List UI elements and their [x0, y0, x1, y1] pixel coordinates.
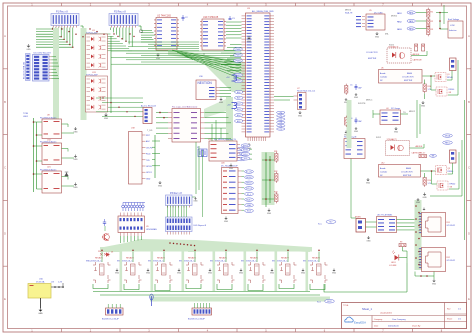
connector pins left of OLED — [356, 16, 365, 27]
svg-text:AC-In-L Bluetooth: AC-In-L Bluetooth — [141, 105, 156, 108]
mosfet Q2 RF540 channel A — [436, 87, 454, 96]
svg-text:17264A(CT): 17264A(CT) — [387, 138, 398, 141]
svg-text:P1: P1 — [280, 116, 282, 118]
gnd right of RELAY6 — [270, 269, 275, 275]
svg-text:E: E — [468, 297, 470, 301]
svg-text:GND: GND — [146, 178, 151, 180]
svg-text:U21: U21 — [47, 167, 52, 169]
svg-text:Your Company: Your Company — [392, 318, 407, 321]
svg-text:M1L: M1L — [385, 34, 389, 36]
svg-text:GND: GND — [73, 131, 78, 133]
net flag FAN3 oval — [397, 27, 415, 31]
svg-text:GND: GND — [239, 273, 244, 275]
svg-text:1.7k: 1.7k — [428, 183, 432, 185]
svg-text:CAP: CAP — [358, 87, 362, 90]
gnd right of RELAY7 — [301, 269, 306, 275]
gnd below U19 — [202, 54, 207, 61]
svg-text:Anode: Anode — [380, 72, 385, 75]
svg-text:B: B — [4, 100, 6, 104]
svg-text:BUZZ/DOC-0.36-8P: BUZZ/DOC-0.36-8P — [188, 319, 206, 321]
IC U2 74HC165 — [154, 14, 179, 50]
svg-text:GND: GND — [267, 213, 272, 215]
svg-text:D: D — [4, 231, 6, 235]
svg-text:ALL_MEGA_2560_SMD: ALL_MEGA_2560_SMD — [252, 10, 274, 13]
svg-text:SRD-05VDC-SL-C: SRD-05VDC-SL-C — [303, 260, 319, 262]
connector U14 LED Board x8 — [33, 52, 52, 81]
svg-text:GND: GND — [224, 221, 229, 223]
svg-text:TLP521-4GP: TLP521-4GP — [86, 75, 98, 77]
wire relay8 bottom run — [324, 263, 407, 292]
pale green bus right column — [347, 100, 352, 148]
gnd below R7 — [344, 98, 349, 104]
module U18 ESP — [129, 128, 154, 185]
IC U19 74HC165 — [200, 16, 226, 50]
resistor R14 1.7k channel B — [423, 176, 431, 187]
svg-text:PWM1: PWM1 — [235, 55, 240, 57]
gnd right of U18 bottom — [158, 181, 163, 187]
input block J4 Home relay IN — [344, 136, 365, 159]
svg-text:G8: G8 — [450, 187, 453, 189]
wire stub RELAY6 to bundle — [256, 249, 258, 262]
wires P3 to P4 verticals — [168, 206, 187, 218]
svg-text:GND: GND — [366, 182, 371, 184]
resistor R21 4.7k pull-up — [274, 151, 278, 163]
svg-text:R1: R1 — [431, 12, 435, 14]
svg-text:A: A — [468, 34, 470, 38]
gnd right of RELAY5 — [239, 269, 244, 275]
wire bundle center vertical to bottom — [196, 142, 203, 217]
pale green bus beside pullup resistors — [262, 152, 275, 205]
wires level shifter right pins to bus — [205, 112, 232, 138]
wire vertical channel A to channel B — [417, 100, 420, 138]
svg-text:U18: U18 — [131, 128, 136, 130]
driver U12 opto output block channel B — [379, 163, 421, 178]
svg-text:RELAY7: RELAY7 — [281, 257, 290, 260]
net flag ovals right of U17 — [241, 144, 250, 160]
mosfet Q4 RF540 channel B — [437, 181, 455, 190]
svg-text:EasyEDA: EasyEDA — [354, 320, 366, 324]
svg-text:7%: 7% — [403, 112, 406, 114]
svg-text:MISO2: MISO2 — [246, 183, 251, 185]
svg-text:ULN2003AN: ULN2003AN — [146, 228, 157, 231]
header J2 BUZZ/DOC 4P — [102, 304, 123, 321]
svg-text:Header Male 2.54_1x4: Header Male 2.54_1x4 — [297, 91, 315, 93]
labels MISO2 SDA left of OLED — [345, 10, 353, 15]
svg-text:SCK2TE: SCK2TE — [358, 103, 366, 105]
svg-text:CH_PD: CH_PD — [146, 147, 153, 149]
wires ULN outputs into bundle — [121, 236, 142, 243]
svg-text:R2: R2 — [431, 21, 435, 23]
svg-text:SRD-05VDC-SL-C: SRD-05VDC-SL-C — [117, 260, 133, 262]
label SCK2 channel A — [389, 45, 394, 47]
svg-text:RST: RST — [146, 135, 151, 137]
regulator U10 DC-5V module yellow — [28, 279, 63, 299]
svg-text:U4: U4 — [386, 108, 388, 110]
svg-text:GND: GND — [270, 273, 275, 275]
AC/DC module U8 PD-LM05-05 — [40, 115, 62, 139]
svg-text:PWM0: PWM0 — [235, 49, 240, 51]
wire MCU right to U7 — [274, 97, 294, 101]
svg-text:RJ1: RJ1 — [447, 222, 450, 224]
resistor R16 1.7k channel A — [423, 82, 431, 93]
gnd below pull-up bus — [267, 209, 272, 215]
gnd below RJ45 jacks — [432, 279, 437, 285]
svg-text:SDA_L: SDA_L — [246, 198, 251, 201]
wire loops below relays — [93, 284, 325, 295]
wire run level shifter to W5500 area — [212, 120, 221, 141]
svg-text:I2C Gauge: I2C Gauge — [391, 108, 400, 110]
resistor R5 channel A — [422, 44, 425, 51]
svg-text:GND: GND — [38, 313, 43, 315]
relay RELAY7 SRD-05VDC-SL-C — [272, 257, 297, 284]
svg-text:SRD-05VDC-SL-C: SRD-05VDC-SL-C — [179, 260, 195, 262]
svg-text:CATHODE: CATHODE — [413, 59, 423, 62]
svg-text:Rev:: Rev: — [447, 309, 451, 311]
optocoupler U25 17264A(CT) channel B — [386, 138, 410, 156]
svg-text:GND: GND — [354, 97, 359, 99]
wire vertical mid-right to RS485 area — [351, 148, 356, 218]
IC U15 TTL A RS485 — [377, 214, 397, 233]
svg-text:U16: U16 — [199, 76, 204, 78]
optocoupler U11 TLP521-4GP bank2 — [86, 72, 108, 112]
svg-text:SRD-05VDC-SL-C: SRD-05VDC-SL-C — [210, 260, 226, 262]
svg-text:Q3: Q3 — [448, 168, 451, 170]
svg-text:Bluetooth-USB-UA: Bluetooth-USB-UA — [23, 62, 26, 79]
svg-text:U14 LED Board 8: U14 LED Board 8 — [34, 52, 52, 55]
svg-text:R14: R14 — [428, 180, 431, 182]
svg-text:Cathode: Cathode — [380, 76, 387, 79]
svg-text:GND: GND — [416, 202, 421, 204]
svg-text:MISO3: MISO3 — [345, 10, 351, 12]
svg-text:MISO2: MISO2 — [409, 111, 415, 113]
svg-text:TLP521-4GP: TLP521-4GP — [86, 33, 98, 35]
svg-text:N_O: N_O — [317, 302, 322, 304]
svg-text:MOSI2: MOSI2 — [391, 16, 397, 18]
wire AC input rail left of modules — [33, 118, 42, 192]
wire bus opto area to U18 region — [96, 97, 143, 117]
junction dots top-left bus — [61, 28, 134, 42]
svg-text:R6 4.7: R6 4.7 — [420, 153, 425, 155]
svg-text:GND: GND — [73, 187, 78, 189]
svg-text:U9: U9 — [146, 226, 149, 228]
net stub antenna glyph blue — [150, 294, 153, 306]
svg-text:Date:: Date: — [374, 324, 379, 327]
svg-text:N_C: N_C — [318, 224, 323, 226]
svg-text:Sheet_1: Sheet_1 — [362, 307, 373, 311]
connector J1 bluetooth vertical — [23, 54, 31, 81]
svg-text:I2C OLED: I2C OLED — [374, 12, 383, 14]
LED array blue indicator row — [122, 203, 145, 212]
svg-text:GY-126-32: GY-126-32 — [447, 225, 456, 227]
net flag oval N_O near relay8 — [317, 299, 334, 303]
net label TX1B LM01 left edge — [23, 113, 29, 118]
svg-text:R21: R21 — [274, 151, 277, 153]
svg-text:P0: P0 — [280, 112, 282, 114]
label 7% and MISO2 near gauge — [403, 111, 415, 114]
svg-text:P4: P4 — [280, 126, 282, 128]
header J3 BUZZ/DOC 8P — [188, 303, 212, 321]
svg-text:GND: GND — [366, 240, 371, 242]
gauge U4 I2C block — [380, 108, 401, 125]
svg-text:U10: U10 — [39, 279, 44, 281]
svg-text:ADC: ADC — [146, 140, 151, 143]
IC U17 Pwr W5500 Ethernet — [208, 138, 240, 161]
svg-text:D1: D1 — [111, 252, 113, 254]
gnd below gauge — [394, 127, 399, 133]
svg-text:GND: GND — [332, 273, 337, 275]
svg-text:GND: GND — [73, 159, 78, 161]
wire stub RELAY3 to bundle — [163, 249, 165, 262]
gnd module U13 output — [73, 155, 78, 161]
labels ANODE CATHODE channel A — [413, 53, 423, 62]
gnd top of RJ45 bus second — [422, 208, 425, 211]
svg-text:P3 Rec x 8: P3 Rec x 8 — [170, 192, 182, 195]
gnd above RJ45 bus — [416, 198, 421, 204]
gnd below C6 — [354, 127, 359, 133]
svg-text:FAN3: FAN3 — [409, 27, 413, 30]
junction dot column RJ45 bus — [415, 205, 420, 265]
svg-text:SRD-05VDC-SL-C: SRD-05VDC-SL-C — [241, 260, 257, 262]
IC U22 Pwr Logic Level Bidirectional — [168, 106, 205, 143]
svg-text:R9: R9 — [400, 242, 402, 244]
svg-text:SRD-05VDC-SL-C: SRD-05VDC-SL-C — [148, 260, 164, 262]
svg-text:MISO1: MISO1 — [243, 145, 248, 147]
svg-text:GND: GND — [177, 273, 182, 275]
gnd below RS485 terminal — [366, 236, 371, 242]
resistor R23 4.7k pull-up — [274, 192, 278, 204]
gnd hook right of P3 — [192, 197, 198, 203]
net flag ovals right of U20 — [242, 170, 254, 213]
wires NEXTION right pins — [220, 87, 232, 96]
wire diagonal bundle U2/U19 outputs to MCU — [172, 50, 241, 79]
svg-text:P1 Rec x 8: P1 Rec x 8 — [56, 10, 68, 13]
svg-text:FAN 1: FAN 1 — [445, 141, 450, 144]
buck converter U23 low inductive — [448, 18, 463, 38]
resistor R4 channel A — [415, 44, 418, 51]
gnd right of RELAY4 — [208, 269, 213, 275]
svg-text:SCK_B: SCK_B — [246, 188, 252, 190]
AC/DC module U21 PD-LM05-05 — [40, 167, 62, 194]
net oval right of R6 — [429, 154, 436, 157]
IC U9 ULN2003AN — [118, 213, 157, 237]
svg-text:GND: GND — [247, 41, 252, 43]
svg-text:COLLECTOR: COLLECTOR — [366, 52, 378, 54]
svg-text:FAN1: FAN1 — [397, 12, 402, 15]
label T_DI1 above U18 pins — [147, 130, 153, 132]
power flag VB pair top — [226, 75, 237, 81]
terminal J5 RS485 — [355, 217, 366, 233]
gnd hook right of P2 — [139, 26, 143, 32]
svg-text:+5V: +5V — [51, 282, 55, 284]
svg-text:AD5: AD5 — [237, 120, 240, 123]
svg-text:GND: GND — [354, 131, 359, 133]
svg-text:G8: G8 — [449, 92, 452, 94]
svg-text:DC5V-1A: DC5V-1A — [36, 281, 45, 284]
connector 2pin vertical channel B — [450, 150, 457, 163]
wire bus U19 to MCU left — [226, 22, 242, 38]
svg-text:NEXTION: NEXTION — [198, 81, 213, 85]
svg-text:TX1B: TX1B — [23, 113, 29, 115]
svg-text:GND: GND — [298, 115, 303, 117]
gnd below C5 — [354, 93, 359, 99]
AC/DC module U13 PD-LM05-05 — [40, 140, 62, 165]
gnd right of RELAY3 — [177, 269, 182, 275]
svg-text:GND: GND — [26, 49, 31, 51]
gnd symbol above U14 — [26, 44, 31, 51]
svg-text:GND: GND — [421, 105, 426, 107]
svg-text:FAN2: FAN2 — [409, 20, 413, 23]
svg-text:U3: U3 — [247, 8, 251, 10]
capacitor C2 top — [182, 15, 189, 21]
svg-text:C5: C5 — [350, 85, 352, 87]
svg-text:SC_L: SC_L — [247, 194, 251, 196]
svg-text:Flash: Flash — [146, 154, 151, 156]
gnd module U21 output — [73, 183, 78, 189]
wire stub RELAY4 to bundle — [194, 249, 196, 262]
svg-text:SCK2: SCK2 — [376, 137, 381, 139]
gnd near MCU top-left — [247, 36, 252, 43]
optocoupler U24 17264A(CT) channel A — [387, 46, 411, 64]
wires channel B — [410, 140, 463, 196]
crystal X1 left of U17 — [197, 147, 207, 157]
svg-text:SRD-05VDC-SL-C: SRD-05VDC-SL-C — [272, 260, 288, 262]
svg-text:U15 TTL A RS485: U15 TTL A RS485 — [377, 214, 392, 217]
net flag FAN2 oval — [397, 19, 415, 23]
gnd channel B left — [366, 178, 371, 184]
svg-text:BASE: BASE — [406, 167, 412, 170]
resistor R3 10k fan pull — [427, 25, 435, 36]
svg-text:RJ2: RJ2 — [447, 257, 450, 259]
horizontal wire bus top-left to opto inputs — [36, 28, 132, 51]
svg-text:GND: GND — [193, 201, 198, 203]
wire regulator output with junctions — [51, 283, 64, 288]
svg-text:P2: P2 — [280, 119, 282, 121]
wire bus headers to U2 inputs — [141, 31, 155, 43]
svg-text:R23: R23 — [274, 192, 277, 194]
svg-text:RF540: RF540 — [449, 89, 455, 91]
svg-text:R3: R3 — [431, 29, 435, 31]
pale green band above relays — [100, 247, 312, 252]
svg-text:GND: GND — [158, 185, 163, 187]
svg-text:FAN3: FAN3 — [397, 28, 402, 31]
wire long run right edge vertical — [464, 100, 466, 240]
svg-text:1.7k: 1.7k — [428, 89, 432, 91]
ethernet jack J7 RJ45 — [419, 248, 456, 272]
ethernet jack J6 RJ45 — [419, 213, 456, 237]
capacitor C6 right column — [350, 118, 362, 124]
svg-text:C2: C2 — [185, 17, 188, 19]
labels ANODE CATHODE channel B — [412, 145, 423, 155]
svg-text:R22: R22 — [274, 171, 277, 173]
gnd below U2 — [156, 53, 161, 60]
svg-text:MOSI2: MOSI2 — [246, 177, 251, 179]
label SCK2 channel B — [376, 137, 381, 139]
svg-text:GND: GND — [219, 102, 224, 104]
svg-text:COLLECTOR: COLLECTOR — [402, 77, 414, 79]
svg-text:GY-126-32: GY-126-32 — [447, 260, 456, 262]
svg-text:BUZZ/DOC-0.36-4P: BUZZ/DOC-0.36-4P — [102, 319, 120, 321]
optocoupler U1 TLP521-4GP bank1 — [86, 30, 108, 69]
header P4 LED Repeat 8 double row — [166, 217, 207, 235]
wire stub RELAY8 to bundle — [318, 249, 320, 262]
svg-text:PD-LM05-05 ACDC: PD-LM05-05 ACDC — [40, 116, 57, 119]
pale green band below relays — [150, 297, 330, 302]
relay RELAY1 SRD-05VDC-SL-C — [86, 257, 111, 284]
svg-text:Buck Voltage: Buck Voltage — [448, 18, 459, 21]
connector AC-In-L bluetooth 3pin — [141, 105, 156, 124]
svg-text:AD0: AD0 — [237, 91, 240, 94]
svg-text:LED Repeat 8: LED Repeat 8 — [194, 224, 207, 227]
svg-text:PD-LM05-05 ACDC: PD-LM05-05 ACDC — [40, 141, 57, 144]
svg-text:BUZZ: BUZZ — [327, 301, 331, 303]
svg-text:17264A(CT): 17264A(CT) — [388, 46, 399, 49]
svg-text:RELAY8: RELAY8 — [312, 257, 321, 260]
svg-text:PD-LM05-05 ACDC: PD-LM05-05 ACDC — [40, 168, 57, 171]
svg-text:E: E — [4, 297, 6, 301]
resistor R7 right column — [345, 84, 348, 95]
diode D3 protection — [65, 172, 69, 176]
svg-text:GND: GND — [432, 283, 437, 285]
svg-text:Sheet:: Sheet: — [447, 318, 453, 321]
gnd below MCU — [247, 143, 252, 150]
svg-text:U12: U12 — [381, 163, 384, 165]
resistor R1 10k fan pull — [427, 8, 435, 19]
svg-text:RELAY1: RELAY1 — [95, 257, 104, 260]
wires LED circuit — [399, 247, 407, 263]
svg-text:GND: GND — [375, 36, 380, 38]
net flag ovals left of MCU upper — [234, 47, 243, 82]
resistor R22 4.7k pull-up — [274, 171, 278, 183]
relay RELAY4 SRD-05VDC-SL-C — [179, 257, 204, 284]
title block text fields — [343, 305, 462, 328]
svg-text:BASE: BASE — [407, 72, 413, 75]
capacitor C5 right column — [350, 84, 362, 90]
gnd channel A — [421, 101, 426, 107]
svg-text:GND: GND — [394, 131, 399, 133]
wire opto outputs right vertical — [110, 36, 112, 113]
svg-text:C: C — [4, 166, 6, 170]
svg-text:RELAY4: RELAY4 — [188, 257, 197, 260]
wire gauge connections — [373, 110, 408, 118]
capacitor C3 top — [229, 16, 236, 20]
wires U14 to opto bank inputs — [52, 57, 60, 79]
gnd right of RELAY1 — [115, 269, 120, 275]
net flag oval N_C mid right — [318, 220, 336, 226]
relay RELAY5 SRD-05VDC-SL-C — [210, 257, 235, 284]
net flag ovals left of MCU lower column — [235, 90, 243, 122]
relay RELAY3 SRD-05VDC-SL-C — [148, 257, 173, 284]
gnd hook right of P1 — [81, 26, 85, 32]
svg-text:C: C — [468, 166, 470, 170]
svg-text:Cathode: Cathode — [380, 171, 387, 174]
pale green selected bus vertical left — [53, 28, 59, 129]
svg-text:U5: U5 — [369, 10, 372, 12]
wire bus U2/U19 to MCU — [111, 42, 241, 64]
svg-text:AD1: AD1 — [237, 97, 240, 100]
svg-text:LED1: LED1 — [391, 262, 396, 264]
gnd below R8 — [344, 131, 349, 137]
gnd right of RELAY2 — [146, 269, 151, 275]
resistor R25 base — [100, 253, 107, 256]
svg-text:EMITTER: EMITTER — [368, 58, 377, 60]
relay RELAY2 SRD-05VDC-SL-C — [117, 257, 142, 284]
wires channel A — [411, 51, 458, 99]
display U5 I2C OLED — [366, 10, 385, 30]
wires MCU left pins heading left — [221, 44, 242, 70]
svg-text:U8: U8 — [47, 115, 50, 117]
svg-text:P2 Rec x 8: P2 Rec x 8 — [114, 10, 126, 13]
svg-text:Q1: Q1 — [447, 74, 450, 76]
